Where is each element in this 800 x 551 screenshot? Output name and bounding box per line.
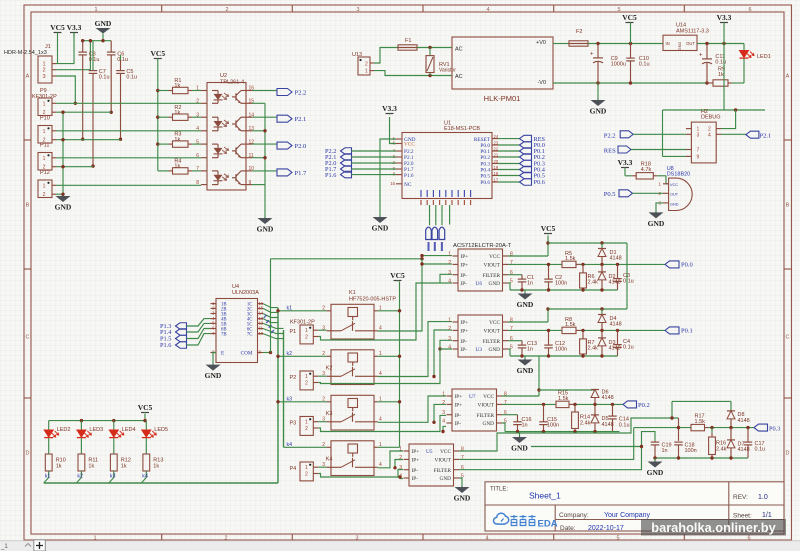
svg-text:4148: 4148 xyxy=(609,346,621,352)
svg-text:GND: GND xyxy=(489,347,501,353)
svg-text:IP+: IP+ xyxy=(461,254,469,260)
svg-text:EDA: EDA xyxy=(538,519,558,530)
svg-text:GND: GND xyxy=(678,42,682,51)
svg-text:1: 1 xyxy=(43,101,46,107)
svg-text:VCC: VCC xyxy=(440,449,451,455)
svg-text:FILTER: FILTER xyxy=(434,468,452,474)
svg-text:GND: GND xyxy=(95,19,112,28)
svg-text:RES: RES xyxy=(604,147,616,154)
svg-text:VCC: VCC xyxy=(483,394,494,400)
svg-text:LED5: LED5 xyxy=(154,427,168,433)
svg-text:V3.3: V3.3 xyxy=(382,104,397,113)
svg-text:GND: GND xyxy=(483,421,495,427)
svg-text:HLK-PM01: HLK-PM01 xyxy=(484,94,521,103)
svg-text:1: 1 xyxy=(305,420,308,426)
svg-text:1: 1 xyxy=(305,374,308,380)
svg-text:1k: 1k xyxy=(121,464,127,470)
svg-text:OUT: OUT xyxy=(670,193,679,197)
svg-text:VCC: VCC xyxy=(489,320,500,326)
svg-text:4: 4 xyxy=(196,126,199,132)
svg-text:IP-: IP- xyxy=(461,347,468,353)
svg-text:E: E xyxy=(221,351,224,357)
svg-text:0.1u: 0.1u xyxy=(623,279,634,285)
svg-text:VC5: VC5 xyxy=(138,403,153,412)
svg-text:IP-: IP- xyxy=(412,468,419,474)
svg-text:+V0: +V0 xyxy=(536,40,546,46)
svg-text:IP-: IP- xyxy=(461,339,468,345)
svg-text:RESET: RESET xyxy=(474,137,491,143)
svg-text:1: 1 xyxy=(42,62,45,68)
svg-text:NC: NC xyxy=(404,182,412,188)
svg-text:1: 1 xyxy=(448,252,451,258)
svg-text:COM: COM xyxy=(241,351,253,357)
svg-text:10: 10 xyxy=(259,331,264,336)
svg-text:1n: 1n xyxy=(527,281,533,287)
svg-text:6: 6 xyxy=(748,7,751,13)
svg-text:IP+: IP+ xyxy=(461,329,469,335)
svg-text:2.4k: 2.4k xyxy=(588,280,599,286)
svg-text:ULN2003A: ULN2003A xyxy=(232,290,259,296)
svg-text:P3: P3 xyxy=(290,421,297,427)
svg-text:FILTER: FILTER xyxy=(483,273,501,279)
svg-text:P1: P1 xyxy=(290,329,297,335)
svg-text:IN: IN xyxy=(666,41,670,46)
svg-text:1: 1 xyxy=(43,156,46,162)
svg-text:9: 9 xyxy=(249,180,252,186)
svg-text:FILTER: FILTER xyxy=(477,413,495,419)
svg-text:FILTER: FILTER xyxy=(483,339,501,345)
svg-text:+: + xyxy=(699,53,703,59)
svg-text:1: 1 xyxy=(365,69,368,75)
svg-text:100n: 100n xyxy=(685,448,697,454)
svg-text:AC: AC xyxy=(455,47,463,53)
svg-text:100n: 100n xyxy=(555,347,567,353)
svg-text:4148: 4148 xyxy=(610,322,622,328)
svg-text:1k: 1k xyxy=(174,137,180,143)
svg-text:P0.1: P0.1 xyxy=(681,328,693,335)
svg-text:1k: 1k xyxy=(718,72,724,78)
svg-text:IP-: IP- xyxy=(461,281,468,287)
svg-text:LED2: LED2 xyxy=(57,427,71,433)
svg-text:1: 1 xyxy=(43,183,46,189)
svg-text:6: 6 xyxy=(510,336,513,342)
svg-text:P1.6: P1.6 xyxy=(325,172,336,179)
svg-text:P11: P11 xyxy=(40,143,49,149)
svg-text:2: 2 xyxy=(196,99,199,105)
svg-text:3: 3 xyxy=(42,74,45,80)
svg-text:1: 1 xyxy=(196,86,199,92)
svg-text:4: 4 xyxy=(448,345,451,351)
svg-text:1: 1 xyxy=(305,465,308,471)
svg-text:4: 4 xyxy=(486,7,489,13)
svg-text:VCC: VCC xyxy=(489,254,500,260)
svg-text:3: 3 xyxy=(697,132,700,138)
svg-text:4148: 4148 xyxy=(609,280,621,286)
svg-text:AMS1117-3.3: AMS1117-3.3 xyxy=(676,28,709,34)
svg-text:4: 4 xyxy=(379,325,382,331)
svg-text:GND: GND xyxy=(670,202,679,206)
svg-text:k4: k4 xyxy=(142,474,148,480)
svg-text:7: 7 xyxy=(504,400,507,406)
svg-text:3: 3 xyxy=(356,7,359,13)
svg-text:1: 1 xyxy=(43,129,46,135)
svg-text:GND: GND xyxy=(648,219,665,228)
svg-text:0.1u: 0.1u xyxy=(623,345,634,351)
svg-text:GND: GND xyxy=(511,444,528,453)
svg-text:2.4k: 2.4k xyxy=(716,447,727,453)
svg-text:1n: 1n xyxy=(522,422,528,428)
svg-text:1k: 1k xyxy=(174,164,180,170)
svg-text:6: 6 xyxy=(510,270,513,276)
svg-text:Sheet_1: Sheet_1 xyxy=(529,491,561,501)
svg-text:P1.7: P1.7 xyxy=(295,170,307,177)
svg-text:P0.2: P0.2 xyxy=(480,155,490,161)
svg-text:V3.3: V3.3 xyxy=(717,13,732,22)
svg-text:GND: GND xyxy=(205,371,222,380)
svg-text:OUT: OUT xyxy=(686,41,695,46)
svg-text:0.1u: 0.1u xyxy=(619,423,630,429)
svg-text:KF301-2P: KF301-2P xyxy=(32,94,57,100)
svg-text:LED1: LED1 xyxy=(757,54,771,60)
svg-text:U6: U6 xyxy=(476,281,483,287)
svg-text:D: D xyxy=(26,451,30,457)
svg-text:P2.1: P2.1 xyxy=(295,116,307,123)
svg-text:GND: GND xyxy=(55,203,72,212)
svg-text:F2: F2 xyxy=(576,29,582,35)
svg-text:C14: C14 xyxy=(619,416,629,422)
svg-text:2: 2 xyxy=(225,7,228,13)
svg-text:1: 1 xyxy=(399,447,402,453)
svg-text:IP+: IP+ xyxy=(461,320,469,326)
svg-text:Your Company: Your Company xyxy=(604,512,651,519)
svg-text:1/1: 1/1 xyxy=(762,512,772,519)
svg-text:1k: 1k xyxy=(88,464,94,470)
svg-text:2: 2 xyxy=(448,260,451,266)
svg-text:GND: GND xyxy=(647,468,664,477)
svg-text:DS18B20: DS18B20 xyxy=(667,171,691,177)
svg-text:5: 5 xyxy=(196,139,199,145)
svg-text:GND: GND xyxy=(257,225,274,234)
svg-text:7C: 7C xyxy=(247,333,253,338)
svg-text:VC5: VC5 xyxy=(390,271,405,280)
svg-text:7: 7 xyxy=(461,455,464,461)
svg-text:C: C xyxy=(786,335,790,341)
svg-text:P2: P2 xyxy=(290,375,297,381)
svg-text:6: 6 xyxy=(196,153,199,159)
svg-text:1.0: 1.0 xyxy=(758,494,768,501)
svg-text:7: 7 xyxy=(196,166,199,172)
svg-text:VC5: VC5 xyxy=(541,224,556,233)
svg-text:2: 2 xyxy=(442,400,445,406)
svg-text:P2.0: P2.0 xyxy=(295,143,307,150)
svg-text:A: A xyxy=(786,74,790,80)
svg-text:D: D xyxy=(786,451,790,457)
svg-text:1: 1 xyxy=(305,328,308,334)
svg-text:6: 6 xyxy=(504,410,507,416)
svg-text:k3: k3 xyxy=(110,474,116,480)
svg-text:P0.0: P0.0 xyxy=(681,262,693,269)
svg-text:1n: 1n xyxy=(662,448,668,454)
svg-text:2022-10-17: 2022-10-17 xyxy=(588,525,624,532)
svg-text:VIOUT: VIOUT xyxy=(484,329,501,335)
svg-text:0.1u: 0.1u xyxy=(755,447,766,453)
svg-text:C: C xyxy=(26,335,30,341)
svg-text:V3.3: V3.3 xyxy=(67,23,82,32)
svg-text:IP+: IP+ xyxy=(455,394,463,400)
svg-text:3: 3 xyxy=(399,465,402,471)
svg-text:0.1u: 0.1u xyxy=(639,62,650,68)
svg-text:P0.3: P0.3 xyxy=(769,425,780,432)
svg-text:IP+: IP+ xyxy=(455,403,463,409)
svg-text:0.1u: 0.1u xyxy=(117,57,128,63)
svg-text:1: 1 xyxy=(94,7,97,13)
svg-text:GND: GND xyxy=(372,224,389,233)
svg-text:B: B xyxy=(786,203,790,209)
svg-text:1k: 1k xyxy=(153,464,159,470)
svg-text:1: 1 xyxy=(442,392,445,398)
svg-text:P2.1: P2.1 xyxy=(760,132,772,139)
svg-text:GND: GND xyxy=(489,281,501,287)
svg-text:U2: U2 xyxy=(220,73,227,79)
svg-text:3: 3 xyxy=(448,270,451,276)
svg-text:GND: GND xyxy=(440,476,452,482)
svg-text:VIOUT: VIOUT xyxy=(478,403,495,409)
svg-text:LED3: LED3 xyxy=(89,427,103,433)
svg-text:100n: 100n xyxy=(547,422,559,428)
svg-text:IP+: IP+ xyxy=(412,449,420,455)
svg-text:2: 2 xyxy=(305,472,308,478)
svg-text:6: 6 xyxy=(461,465,464,471)
svg-text:2: 2 xyxy=(365,62,368,68)
svg-text:VC5: VC5 xyxy=(50,23,65,32)
svg-text:Varistor: Varistor xyxy=(439,67,456,73)
svg-text:P0.6: P0.6 xyxy=(480,180,490,186)
svg-text:VC5: VC5 xyxy=(622,13,637,22)
svg-text:Sheet:: Sheet: xyxy=(733,512,752,519)
svg-text:2: 2 xyxy=(305,426,308,432)
svg-text:VIOUT: VIOUT xyxy=(484,263,501,269)
svg-text:8: 8 xyxy=(504,392,507,398)
svg-text:IP-: IP- xyxy=(455,413,462,419)
svg-text:U3: U3 xyxy=(476,347,483,353)
svg-text:2: 2 xyxy=(305,381,308,387)
svg-text:2: 2 xyxy=(42,68,45,74)
svg-text:baraholka.onliner.by: baraholka.onliner.by xyxy=(651,520,776,535)
svg-text:7: 7 xyxy=(697,148,700,154)
svg-text:P12: P12 xyxy=(40,170,50,176)
svg-text:U7: U7 xyxy=(469,394,476,400)
svg-text:4148: 4148 xyxy=(738,418,750,424)
svg-text:4: 4 xyxy=(379,416,382,422)
svg-text:AC: AC xyxy=(455,74,463,80)
svg-text:2.4k: 2.4k xyxy=(588,346,599,352)
svg-text:P10: P10 xyxy=(40,116,50,122)
svg-text:+: + xyxy=(590,52,594,58)
svg-text:3: 3 xyxy=(196,112,199,118)
svg-text:2: 2 xyxy=(448,326,451,332)
svg-text:Company:: Company: xyxy=(559,512,589,519)
svg-text:P0.5: P0.5 xyxy=(480,174,490,180)
svg-text:GND: GND xyxy=(517,366,534,375)
svg-text:HDR-M-2.54_1x3: HDR-M-2.54_1x3 xyxy=(4,50,47,56)
svg-text:GND: GND xyxy=(517,300,534,309)
svg-text:REV:: REV: xyxy=(733,494,748,501)
svg-text:VIOUT: VIOUT xyxy=(435,458,452,464)
svg-text:0.1u: 0.1u xyxy=(89,57,100,63)
svg-text:1k: 1k xyxy=(174,83,180,89)
svg-text:2: 2 xyxy=(43,192,46,198)
svg-text:ACS712ELCTR-20A-T: ACS712ELCTR-20A-T xyxy=(453,243,512,249)
svg-text:4: 4 xyxy=(379,462,382,468)
svg-text:1000u: 1000u xyxy=(611,62,626,68)
svg-text:GND: GND xyxy=(454,494,471,503)
svg-text:1: 1 xyxy=(448,318,451,324)
svg-text:2: 2 xyxy=(399,455,402,461)
svg-text:4148: 4148 xyxy=(610,256,622,262)
svg-text:VCC: VCC xyxy=(670,183,678,187)
svg-text:0.1u: 0.1u xyxy=(126,74,137,80)
svg-text:k1: k1 xyxy=(45,474,51,480)
svg-text:U5: U5 xyxy=(426,449,433,455)
svg-text:3: 3 xyxy=(442,410,445,416)
svg-text:DEBUG: DEBUG xyxy=(701,115,721,121)
svg-text:V3.3: V3.3 xyxy=(618,158,633,167)
svg-text:16: 16 xyxy=(390,181,395,186)
svg-text:P0.2: P0.2 xyxy=(638,402,650,409)
svg-text:3: 3 xyxy=(448,336,451,342)
svg-text:7: 7 xyxy=(510,260,513,266)
svg-text:4: 4 xyxy=(448,279,451,285)
svg-text:-V0: -V0 xyxy=(537,80,546,86)
svg-text:0.1u: 0.1u xyxy=(99,74,110,80)
svg-text:P2.2: P2.2 xyxy=(604,132,616,139)
svg-text:P0.6: P0.6 xyxy=(534,179,545,186)
svg-text:IP+: IP+ xyxy=(461,263,469,269)
svg-text:K1: K1 xyxy=(349,290,356,296)
svg-text:k2: k2 xyxy=(77,474,83,480)
svg-text:E18-MS1-PCB: E18-MS1-PCB xyxy=(444,126,480,132)
svg-text:8: 8 xyxy=(196,180,199,186)
svg-text:5: 5 xyxy=(617,7,620,13)
svg-text:4148: 4148 xyxy=(602,395,614,401)
svg-text:100n: 100n xyxy=(555,281,567,287)
svg-text:4: 4 xyxy=(442,419,445,425)
svg-text:IP-: IP- xyxy=(412,476,419,482)
svg-text:A: A xyxy=(26,74,30,80)
svg-text:P1.6: P1.6 xyxy=(404,173,414,179)
svg-text:4: 4 xyxy=(399,474,402,480)
svg-text:8: 8 xyxy=(510,318,513,324)
svg-text:1n: 1n xyxy=(527,347,533,353)
svg-text:HF7520-005-HSTP: HF7520-005-HSTP xyxy=(349,297,396,303)
svg-text:P1.6: P1.6 xyxy=(160,342,171,349)
svg-text:F1: F1 xyxy=(405,38,411,44)
svg-text:1k: 1k xyxy=(174,110,180,116)
svg-text:7B: 7B xyxy=(221,333,227,338)
svg-text:4: 4 xyxy=(379,371,382,377)
svg-text:8: 8 xyxy=(461,447,464,453)
svg-text:VC5: VC5 xyxy=(151,49,166,58)
svg-text:4148: 4148 xyxy=(602,422,614,428)
svg-text:2.4k: 2.4k xyxy=(580,421,591,427)
svg-text:_1: _1 xyxy=(0,544,8,550)
svg-text:IP+: IP+ xyxy=(412,458,420,464)
svg-text:IP-: IP- xyxy=(455,421,462,427)
svg-text:GND: GND xyxy=(590,107,607,116)
svg-text:P0.5: P0.5 xyxy=(604,191,616,198)
svg-text:Date:: Date: xyxy=(560,525,576,532)
svg-text:2: 2 xyxy=(305,335,308,341)
svg-text:1k: 1k xyxy=(56,464,62,470)
svg-text:8: 8 xyxy=(510,252,513,258)
svg-text:7: 7 xyxy=(510,326,513,332)
svg-text:B: B xyxy=(26,203,30,209)
svg-text:P2.2: P2.2 xyxy=(295,90,307,97)
svg-text:P9: P9 xyxy=(40,88,47,94)
svg-text:4: 4 xyxy=(708,132,711,138)
svg-text:IP-: IP- xyxy=(461,273,468,279)
svg-text:VCC: VCC xyxy=(404,142,415,148)
svg-text:TITLE:: TITLE: xyxy=(490,487,508,493)
svg-text:9: 9 xyxy=(697,154,700,160)
svg-text:P4: P4 xyxy=(290,466,297,472)
svg-text:LED4: LED4 xyxy=(122,427,136,433)
